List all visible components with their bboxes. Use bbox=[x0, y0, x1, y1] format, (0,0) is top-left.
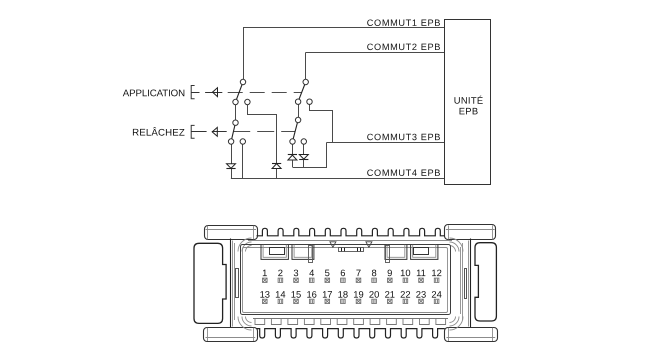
svg-text:20: 20 bbox=[369, 289, 379, 300]
connector J1 key slot rect A bbox=[270, 248, 285, 255]
mechanical link dashed APPLICATION bbox=[228, 92, 302, 94]
svg-text:24: 24 bbox=[431, 289, 441, 300]
connector J1 left ear bbox=[194, 243, 226, 323]
connector J1 right ear bbox=[475, 243, 496, 321]
svg-text:COMMUT4 EPB: COMMUT4 EPB bbox=[367, 168, 441, 178]
switch S2 blade bbox=[231, 123, 235, 142]
actuator arrow RELACHEZ bbox=[212, 131, 227, 133]
connector J1 key slot rect D bbox=[414, 248, 429, 255]
svg-text:APPLICATION: APPLICATION bbox=[123, 88, 185, 99]
connector J1 narrow slot C bbox=[386, 246, 390, 263]
wire S2 left throw to diode D1 bbox=[231, 142, 233, 164]
svg-text:5: 5 bbox=[325, 267, 330, 278]
svg-text:3: 3 bbox=[293, 267, 298, 278]
svg-text:COMMUT2 EPB: COMMUT2 EPB bbox=[367, 42, 441, 52]
connector J1 keying notch U3 bbox=[385, 245, 407, 260]
pin numbers row 1-12 bbox=[262, 267, 442, 278]
svg-text:18: 18 bbox=[338, 289, 348, 300]
wire diode bus to COMMUT3 bbox=[293, 143, 327, 168]
connector J1 right slot bbox=[465, 269, 467, 299]
diode D1 bbox=[227, 164, 236, 169]
connector J1 top mounting cap left bbox=[205, 226, 258, 240]
svg-text:9: 9 bbox=[387, 267, 392, 278]
wire S1 left throw to S2 common bbox=[235, 102, 237, 123]
wire COMMUT4 net bbox=[231, 178, 445, 180]
connector J1 keying notch U2 bbox=[292, 245, 314, 260]
pin numbers row 13-24 bbox=[260, 289, 442, 300]
svg-text:COMMUT1 EPB: COMMUT1 EPB bbox=[367, 18, 441, 28]
svg-text:15: 15 bbox=[291, 289, 301, 300]
wire S3 right throw to COMMUT3 bbox=[310, 102, 333, 143]
wire COMMUT2 net bbox=[306, 52, 445, 54]
svg-text:21: 21 bbox=[385, 289, 395, 300]
connector J1 bottom edge with teeth bbox=[257, 329, 445, 338]
connector J1 keying notch U1 bbox=[261, 245, 288, 260]
svg-text:7: 7 bbox=[356, 267, 361, 278]
wire COMMUT3 net bbox=[326, 142, 444, 144]
svg-text:10: 10 bbox=[400, 267, 410, 278]
actuator arrow APPLICATION bbox=[205, 92, 222, 94]
wire COMMUT1 net bbox=[243, 27, 445, 29]
switch S2 terminals bbox=[233, 120, 238, 125]
pin terminal symbols row 13-24 bbox=[263, 299, 268, 303]
connector J1 narrow slot B bbox=[309, 246, 313, 263]
connector J1 body side walls bbox=[230, 239, 232, 328]
wire S4 right throw to diode D4 bbox=[303, 142, 305, 155]
diode D2 bbox=[272, 163, 281, 165]
switch S1 blade bbox=[236, 82, 244, 102]
diode D3 bbox=[288, 154, 297, 156]
diode D4 bbox=[299, 155, 308, 160]
svg-text:22: 22 bbox=[400, 289, 410, 300]
wire S1 right throw to diode D2 bbox=[248, 102, 277, 163]
svg-text:RELÂCHEZ: RELÂCHEZ bbox=[132, 128, 185, 139]
svg-text:UNITÉ: UNITÉ bbox=[454, 95, 484, 106]
svg-text:EPB: EPB bbox=[459, 105, 479, 116]
svg-text:14: 14 bbox=[275, 289, 285, 300]
connector J1 center recessed edge bbox=[315, 247, 385, 249]
svg-text:16: 16 bbox=[306, 289, 316, 300]
wire S2 right throw to COMMUT4 bbox=[242, 142, 244, 179]
svg-text:23: 23 bbox=[416, 289, 426, 300]
connector J1 corner transition arcs bbox=[238, 238, 252, 252]
svg-text:COMMUT3 EPB: COMMUT3 EPB bbox=[367, 132, 441, 142]
svg-text:12: 12 bbox=[431, 267, 441, 278]
pin terminal symbols row 1-12 bbox=[263, 278, 268, 282]
svg-text:4: 4 bbox=[309, 267, 314, 278]
switch S1 terminals bbox=[240, 79, 245, 84]
mechanical link dashed RELACHEZ bbox=[233, 131, 295, 133]
connector J1 center polarization key bbox=[339, 248, 364, 252]
connector J1 left slot bbox=[236, 269, 239, 298]
svg-text:8: 8 bbox=[371, 267, 376, 278]
ECU box U1 UNITE EPB bbox=[445, 20, 491, 185]
connector J1 cavity outline bbox=[241, 245, 451, 315]
connector J1 top edge with teeth bbox=[257, 228, 445, 236]
svg-text:13: 13 bbox=[260, 289, 270, 300]
connector J1 second top line bbox=[248, 240, 452, 242]
switch S3 blade bbox=[298, 82, 306, 102]
actuator bracket APPLICATION bbox=[191, 86, 194, 99]
svg-text:6: 6 bbox=[340, 267, 345, 278]
connector J1 top mounting cap right bbox=[445, 225, 496, 240]
svg-text:11: 11 bbox=[416, 267, 426, 278]
connector J1 index notch right bbox=[366, 242, 372, 247]
wire S3 left throw to S4 common bbox=[298, 102, 300, 120]
connector J1 index notch left bbox=[330, 242, 336, 247]
svg-text:1: 1 bbox=[262, 267, 267, 278]
connector J1 keying notch U4 bbox=[411, 245, 438, 260]
connector J1 bottom mounting cap right bbox=[445, 328, 498, 342]
actuator bracket RELACHEZ bbox=[191, 125, 194, 138]
wire S4 left throw to diode D3 bbox=[292, 142, 294, 155]
svg-text:19: 19 bbox=[353, 289, 363, 300]
switch S4 terminals bbox=[295, 117, 300, 122]
connector J1 bottom ladder bbox=[253, 318, 448, 320]
switch S3 terminals bbox=[303, 79, 308, 84]
connector J1 bottom mounting cap left bbox=[204, 328, 258, 342]
svg-text:17: 17 bbox=[322, 289, 332, 300]
svg-text:2: 2 bbox=[278, 267, 283, 278]
switch S4 blade bbox=[293, 120, 299, 142]
